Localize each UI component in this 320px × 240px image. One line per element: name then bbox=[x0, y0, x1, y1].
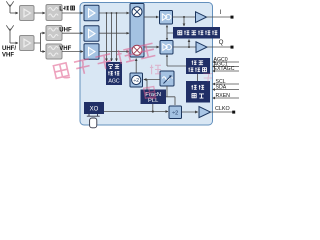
LNA U3 (VHF, on-chip) bbox=[84, 44, 99, 60]
wire ANT2 to amp A2 bbox=[10, 42, 18, 44]
gain controller block bbox=[186, 58, 210, 74]
wire divider to clock buffer bbox=[182, 111, 198, 113]
pin Q pad bbox=[231, 46, 234, 49]
FracN PLL block bbox=[141, 90, 167, 105]
LNA U2 (UHF, on-chip) bbox=[84, 26, 99, 42]
crystal X1 bbox=[87, 114, 100, 128]
svg-text:XO: XO bbox=[90, 106, 99, 112]
wire F3 to LNA3 bbox=[62, 51, 83, 53]
wire mixer M2 to VGA2 bbox=[144, 46, 159, 48]
VGA U4 (I path) bbox=[160, 11, 173, 25]
VCO block bbox=[160, 71, 174, 86]
svg-text:VHF: VHF bbox=[2, 53, 14, 59]
svg-text:EXTAGC: EXTAGC bbox=[214, 66, 235, 72]
watermark stray glyph 2 bbox=[203, 74, 213, 83]
wire XO to divide-by-2 bbox=[104, 111, 168, 113]
pin RXEN bbox=[213, 93, 240, 99]
output buffer B1 (I) bbox=[196, 12, 207, 23]
wire VGA1 to I buffer bbox=[173, 16, 196, 18]
VGA U5 (Q path) bbox=[160, 41, 173, 55]
watermark line B bbox=[144, 86, 157, 99]
LO phase splitter block bbox=[130, 73, 143, 87]
node bus tap 3 bbox=[116, 12, 118, 14]
auto DC offset compensation block bbox=[173, 27, 220, 39]
svg-text:CLKO: CLKO bbox=[215, 106, 230, 112]
svg-text:VHF: VHF bbox=[59, 46, 71, 52]
wire F1 to LNA1 bbox=[62, 12, 83, 14]
svg-text:UHF/: UHF/ bbox=[2, 46, 16, 52]
arrow into VGA2 top bbox=[166, 38, 168, 40]
wire Q output bbox=[207, 46, 231, 48]
node on I wire bbox=[183, 16, 185, 18]
mixer M1 (I path) bbox=[132, 7, 142, 17]
wideband RF AGC block bbox=[106, 62, 122, 85]
watermark line A bbox=[53, 42, 156, 80]
wire LNA1 to mixer block bbox=[99, 12, 129, 14]
node bus tap 1 bbox=[106, 12, 108, 14]
chip outline (tuner IC body) bbox=[80, 3, 213, 126]
filter F1 (L-band SAW filter, gray) bbox=[46, 5, 62, 21]
pin SCL bbox=[213, 79, 240, 85]
wire to filter F2 bbox=[41, 32, 46, 34]
watermark stray glyph 1 bbox=[150, 65, 161, 75]
node bus tap 2 bbox=[111, 12, 113, 14]
wire mixer M1 to VGA1 bbox=[144, 16, 159, 18]
wire A2 split to F2/F3 bbox=[34, 33, 41, 52]
quadrature downconverter block bbox=[130, 4, 144, 58]
wire I output bbox=[207, 16, 232, 18]
divide-by-2 block bbox=[169, 106, 182, 119]
clock buffer B3 bbox=[199, 107, 211, 118]
mixer M2 (Q path) bbox=[132, 45, 142, 55]
node on Q wire bbox=[188, 46, 190, 48]
svg-text:RXEN: RXEN bbox=[216, 93, 231, 99]
svg-text:UHF: UHF bbox=[59, 28, 72, 34]
bus tap wire to RF AGC (3) bbox=[116, 13, 118, 61]
crystal oscillator XO block bbox=[84, 102, 104, 114]
node on XO wire bbox=[152, 110, 154, 112]
wire splitter to downconverter LO bbox=[135, 59, 137, 74]
wire I node down to DC comp bbox=[183, 17, 185, 26]
antenna ANT1 (L-band) bbox=[6, 1, 13, 13]
wire gain controller to control logic bbox=[197, 74, 199, 81]
wire VCO bottom to divider line bbox=[166, 86, 175, 105]
amplifier A2 (external UHF/VHF LNA, gray) bbox=[20, 36, 35, 51]
pin EXTAGC bbox=[213, 66, 240, 72]
wire node up to PLL bbox=[152, 104, 154, 112]
filter F3 (VHF SAW filter, gray) bbox=[46, 44, 62, 59]
wire A1 to filter F1 bbox=[34, 12, 45, 14]
pin CLKO pad bbox=[232, 111, 235, 114]
gain control wire to VGA2 bbox=[167, 56, 186, 67]
pin SDA bbox=[213, 85, 240, 91]
svg-text:AGC: AGC bbox=[108, 78, 119, 84]
wire LNA2 to mixer block bbox=[99, 32, 129, 34]
label L-band bbox=[59, 6, 74, 13]
filter F2 (UHF SAW filter, gray) bbox=[46, 26, 62, 41]
output buffer B2 (Q) bbox=[196, 42, 207, 53]
amplifier A1 (external L-band LNA, gray) bbox=[20, 6, 35, 21]
antenna ANT2 (UHF/VHF) bbox=[6, 25, 13, 43]
wire CLKO output bbox=[211, 111, 233, 113]
wire F2 to LNA2 bbox=[62, 32, 83, 34]
control logic block bbox=[186, 81, 210, 103]
bus tap wire to RF AGC (2) bbox=[111, 13, 113, 61]
svg-text:PLL: PLL bbox=[148, 98, 159, 104]
pin AGC0 bbox=[213, 57, 240, 63]
pin AGC1 bbox=[213, 62, 240, 68]
bus tap wire to RF AGC (1) bbox=[106, 13, 108, 61]
svg-text:L-: L- bbox=[59, 7, 65, 13]
wire LO line down to PLL bbox=[146, 80, 148, 90]
svg-text:Q: Q bbox=[219, 40, 224, 46]
svg-text:÷2: ÷2 bbox=[172, 111, 178, 117]
svg-text:SDA: SDA bbox=[216, 85, 227, 91]
wire LNA3 to mixer block bbox=[99, 51, 129, 53]
wire ANT1 to amp bbox=[10, 12, 18, 14]
LNA U1 (L-band, on-chip) bbox=[84, 5, 99, 21]
arrow into VGA2 bottom bbox=[166, 54, 168, 56]
svg-text:÷2: ÷2 bbox=[134, 78, 140, 84]
wire VGA2 to Q buffer bbox=[173, 46, 196, 48]
arrow into VGA1 bottom bbox=[166, 25, 168, 27]
wire Q node up to DC comp bbox=[188, 40, 190, 48]
wire to filter F3 bbox=[41, 51, 46, 53]
wire VCO to splitter bbox=[144, 79, 160, 81]
pin I pad bbox=[231, 16, 234, 19]
label UHF/VHF bbox=[2, 46, 16, 59]
wire DC comp to VGA control bbox=[167, 26, 173, 41]
